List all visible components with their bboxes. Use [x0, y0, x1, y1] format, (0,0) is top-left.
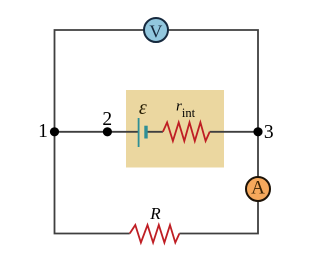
- svg-text:3: 3: [264, 122, 274, 143]
- wire bottom: [55, 132, 259, 234]
- svg-text:V: V: [149, 21, 162, 41]
- battery B1 plates: [138, 118, 140, 147]
- svg-text:2: 2: [102, 109, 112, 130]
- resistor R: [130, 225, 180, 243]
- battery highlight box: [126, 90, 224, 168]
- svg-text:1: 1: [38, 121, 48, 142]
- node 3: [253, 127, 262, 136]
- wire middle left: [55, 131, 139, 133]
- svg-text:R: R: [149, 204, 161, 223]
- svg-text:ε: ε: [139, 97, 147, 119]
- node 1: [50, 127, 59, 136]
- wire middle right: [147, 131, 259, 133]
- svg-text:A: A: [251, 177, 265, 198]
- ammeter A: [246, 177, 270, 201]
- node 2: [103, 127, 112, 136]
- resistor r_int: [163, 122, 210, 141]
- voltmeter V: [144, 18, 168, 42]
- wire top: [55, 30, 259, 132]
